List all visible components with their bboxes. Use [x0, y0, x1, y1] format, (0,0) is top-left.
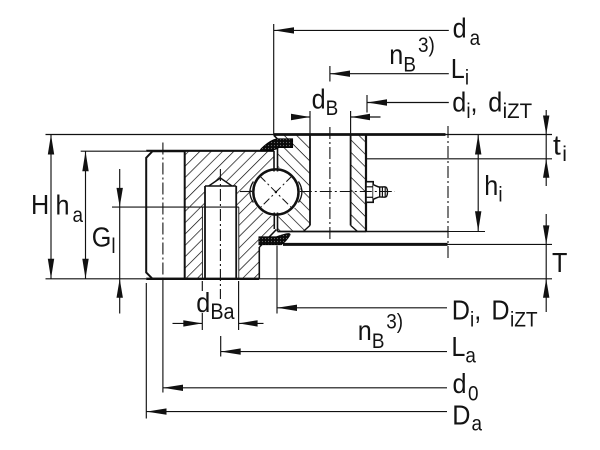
d_B extensions	[309, 111, 311, 134]
ball center dot	[275, 191, 277, 193]
D_a arrow	[147, 408, 167, 414]
outer ring top face	[146, 150, 274, 152]
outer ring hatched section	[185, 151, 274, 279]
T dimension vertical	[545, 214, 547, 312]
d_a arrow	[274, 27, 294, 33]
D_i arrow	[277, 305, 297, 311]
arrowheads	[48, 27, 550, 415]
drill point cone	[209, 178, 232, 186]
L_i arrow	[330, 71, 350, 77]
h_a dimension vertical	[85, 151, 87, 279]
bolt hole shoulder	[205, 185, 236, 187]
inner bolt hole centerline	[329, 127, 331, 240]
inner ring bottom face	[278, 231, 367, 233]
d_Ba arrows	[183, 320, 202, 326]
gear rim block (left, unhatched)	[146, 151, 185, 279]
d_i dimension line	[367, 102, 449, 104]
svg-text:T: T	[552, 247, 567, 279]
svg-text:3): 3)	[386, 311, 403, 334]
support face thick line under inner ring	[283, 243, 448, 246]
h_i arrows	[475, 135, 481, 155]
d_B dimension lines	[292, 116, 311, 118]
outer ring outline	[146, 151, 276, 279]
inner ring bore face	[365, 135, 367, 232]
ball / nipple axis centerline	[240, 191, 252, 193]
D_a dimension line	[147, 411, 448, 413]
svg-text:di,d: di,d	[452, 86, 502, 123]
top surface extension (H)	[46, 134, 274, 136]
raceway arc left	[250, 182, 254, 203]
bottom seal	[259, 234, 290, 245]
G_l arrows	[117, 188, 123, 207]
T arrows	[543, 225, 549, 244]
outer ring bolt hole cutout (drill cone + thread)	[202, 178, 238, 279]
h_a arrows	[82, 151, 88, 171]
outer ring bolt hole outline	[202, 178, 238, 279]
H dimension vertical	[50, 135, 52, 279]
D_i extension	[276, 246, 278, 314]
L_a arrow	[221, 348, 241, 354]
L_i tick	[329, 66, 331, 82]
L_a dimension line	[221, 351, 447, 353]
D_i dimension line	[277, 307, 447, 309]
d_Ba dimension lines	[173, 322, 203, 324]
d_0 dimension line	[163, 387, 447, 389]
h_a top extension	[81, 150, 147, 152]
grease nipple	[366, 182, 388, 203]
D_a extension	[145, 283, 147, 419]
raceway arc right	[298, 182, 302, 203]
inner bolt hole walls	[309, 135, 311, 226]
extension and dimension lines	[46, 24, 553, 419]
svg-text:3): 3)	[418, 34, 435, 57]
seal notch chamfer	[274, 136, 278, 140]
ball	[253, 169, 298, 214]
svg-text:iZT: iZT	[503, 99, 533, 123]
inner bolt hole bottom chamfers	[303, 225, 310, 231]
inner ring hatched section	[274, 135, 366, 232]
d_Ba extensions (broken around label)	[201, 281, 203, 291]
d_a dimension line	[274, 29, 449, 31]
d_a extension	[273, 24, 275, 135]
gear pitch centerline	[162, 143, 164, 280]
d_i tick	[366, 95, 368, 113]
d_i arrow	[367, 99, 387, 105]
G_l thread depth line	[112, 206, 239, 208]
outer bolt hole centerline	[219, 169, 221, 299]
G_l dimension vertical	[119, 169, 121, 314]
svg-text:H: H	[31, 189, 49, 221]
inner ring outline	[274, 135, 485, 232]
d_0 arrow	[163, 385, 183, 391]
outer ring joint wall	[273, 151, 275, 172]
inner ring top face (thick)	[274, 133, 446, 136]
outer ring bottom face	[146, 278, 259, 280]
h_i dimension vertical	[477, 135, 479, 232]
L_i dimension line	[330, 73, 449, 75]
thread major diameter lines	[201, 207, 203, 279]
d_0 extension	[162, 279, 164, 393]
top seal	[260, 139, 292, 151]
inner ring bolt hole cutout	[303, 135, 357, 232]
d_B arrows	[291, 114, 310, 120]
L_a tick	[220, 336, 222, 357]
H arrows	[48, 135, 54, 155]
bolt hole right wall	[235, 186, 237, 279]
t_i dimension vertical	[545, 110, 547, 186]
t_i arrows	[543, 116, 549, 135]
right boundary centerline	[447, 126, 449, 259]
ball contact-angle diagonals	[260, 176, 292, 208]
svg-text:iZT: iZT	[510, 309, 538, 332]
raceway cutout around ball	[251, 167, 300, 216]
bottom surface extension	[46, 278, 147, 280]
t_i step line	[366, 158, 552, 160]
bolt hole left wall	[204, 186, 206, 279]
